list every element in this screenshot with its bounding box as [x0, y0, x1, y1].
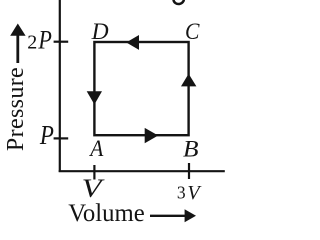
svg-text:P: P: [39, 121, 54, 150]
cycle rectangle ABCD: [94, 42, 188, 135]
label V: [82, 175, 105, 203]
label C: [185, 18, 200, 44]
arrow D to A (left edge, pointing down): [87, 91, 102, 104]
svg-text:C: C: [185, 18, 200, 44]
svg-text:B: B: [183, 136, 199, 162]
volume axis label arrow: [150, 209, 196, 222]
y-axis (pressure axis line): [59, 0, 61, 172]
label D: [91, 19, 109, 45]
label B: [183, 136, 199, 162]
label 3V: [177, 183, 186, 203]
x-axis (volume axis line): [59, 170, 225, 172]
label A: [88, 135, 103, 161]
cropped glyph fragment (bottom of a 'g'): [173, 0, 185, 5]
svg-text:3: 3: [177, 183, 186, 203]
pressure axis label arrow: [10, 24, 25, 64]
tick P: [54, 137, 69, 139]
svg-text:2: 2: [27, 32, 37, 54]
tick 2P: [54, 41, 69, 43]
tick 3V: [188, 163, 190, 179]
svg-text:D: D: [91, 19, 109, 45]
svg-text:Pressure: Pressure: [3, 67, 29, 151]
label Volume: [68, 200, 144, 227]
tick V: [93, 165, 95, 180]
label P: [39, 121, 54, 150]
arrow A to B (bottom edge, pointing right): [145, 128, 159, 143]
svg-text:Volume: Volume: [68, 200, 144, 225]
svg-text:P: P: [37, 27, 52, 55]
arrow C to D (top edge, pointing left): [126, 35, 139, 50]
arrow B to C (right edge, pointing up): [181, 74, 196, 87]
label 2P: [27, 32, 37, 54]
svg-text:A: A: [88, 135, 103, 161]
